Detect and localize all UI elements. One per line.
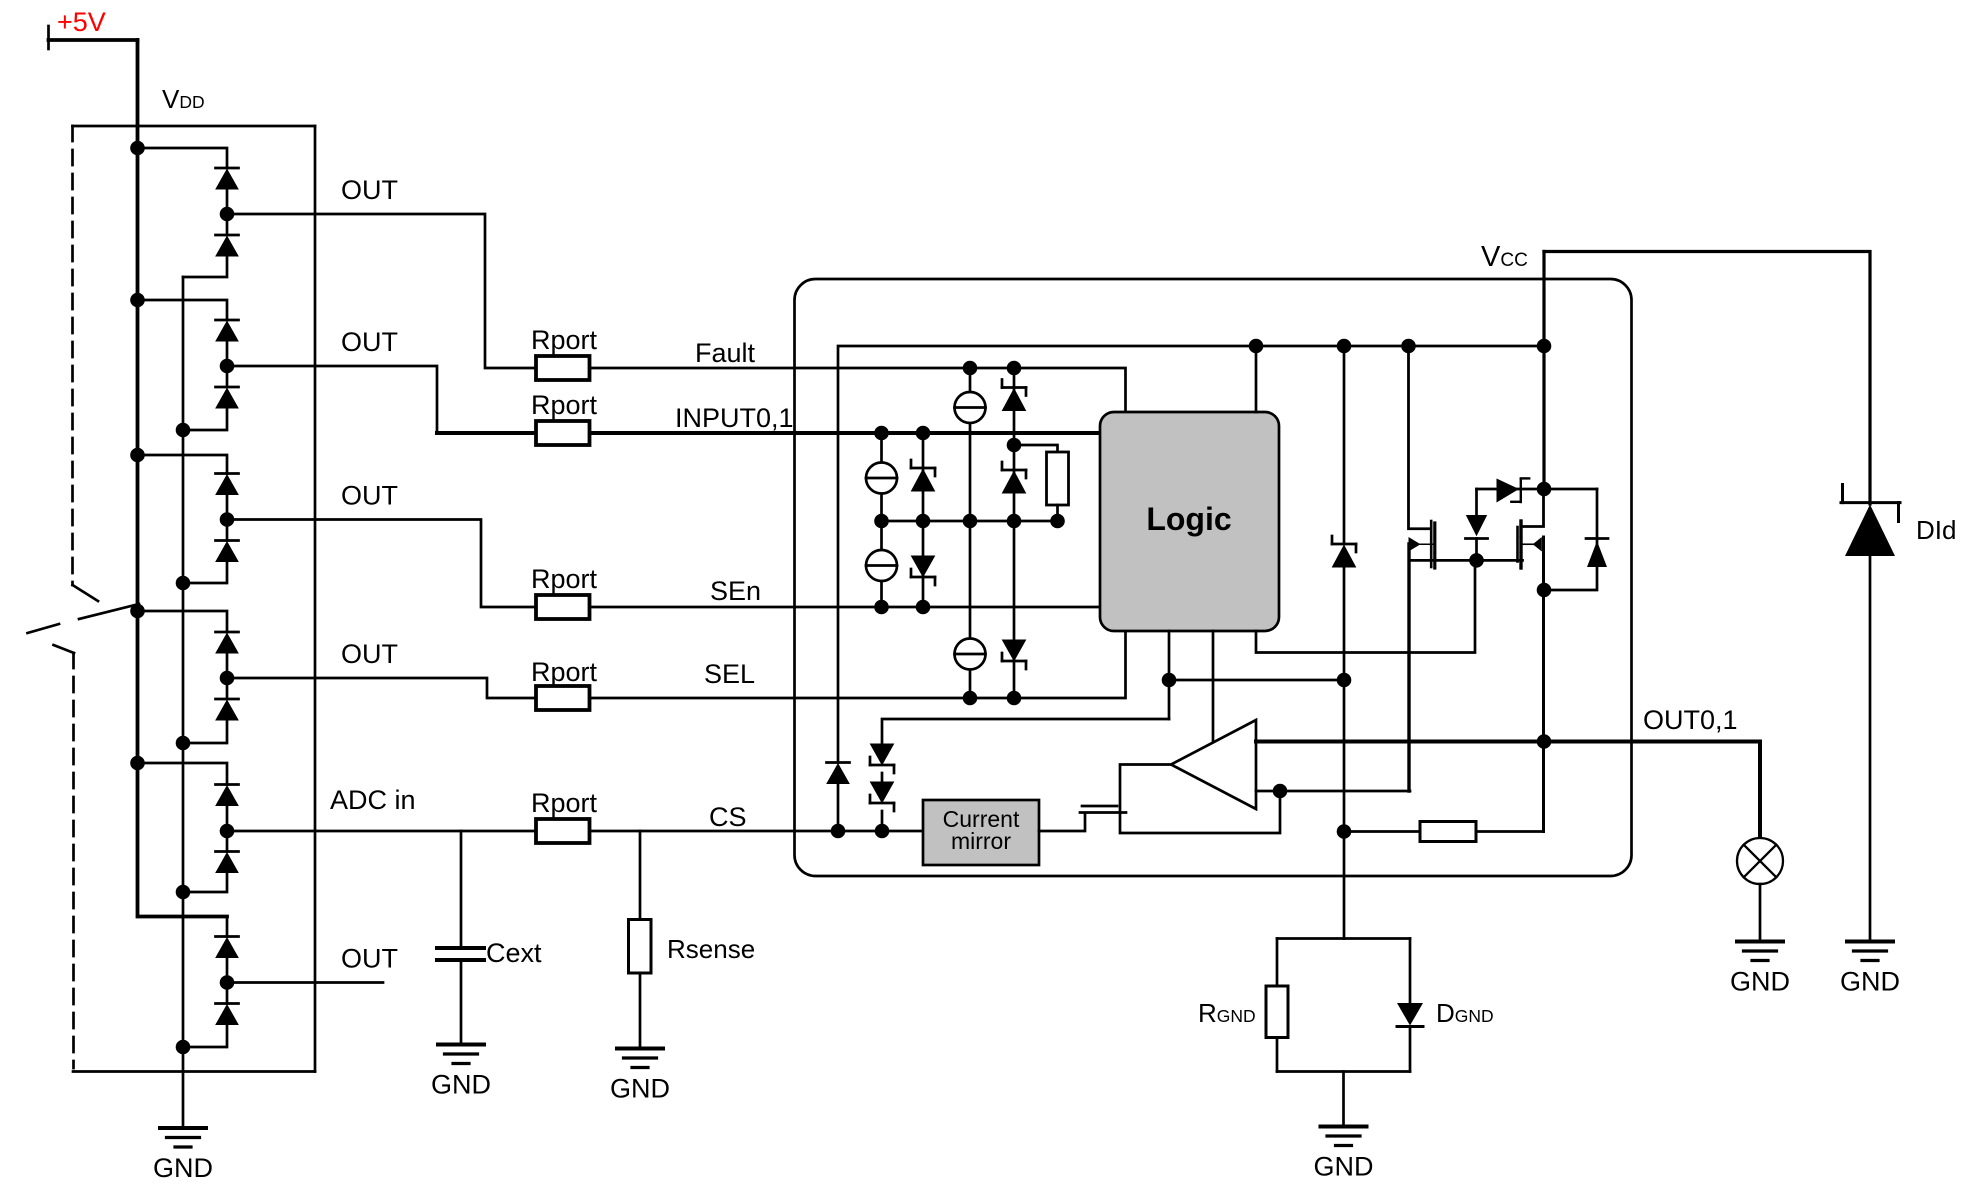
ESD diode cell2 upper: [216, 320, 239, 341]
capacitor Cext: [437, 946, 484, 950]
zener diode Z8 column lower: [1343, 566, 1346, 939]
wire OUT cell2 to Rport2: [227, 366, 437, 433]
node SEn-Z4 junction: [916, 600, 931, 615]
node midrail-I1: [963, 514, 978, 529]
wire ground network top: [1277, 937, 1410, 940]
node midrail-I2: [874, 514, 889, 529]
wire cell2 top: [138, 300, 228, 320]
wire SEL net: [590, 631, 1126, 698]
svg-text:ADC in: ADC in: [330, 785, 416, 815]
wire cell1 mid: [226, 190, 229, 235]
svg-text:OUT: OUT: [341, 481, 398, 511]
svg-text:Fault: Fault: [695, 338, 756, 368]
svg-text:OUT: OUT: [341, 327, 398, 357]
svg-text:Rsense: Rsense: [667, 934, 755, 964]
svg-text:Rport: Rport: [531, 390, 598, 420]
wire op-amp feedback bracket: [1120, 765, 1280, 834]
diode Da: [827, 763, 850, 784]
MCU box right edge: [314, 126, 317, 1072]
node Fault-Z1 junction: [1007, 361, 1022, 376]
ESD diode cell4 lower: [216, 699, 239, 720]
ESD diode cell6 lower: [216, 1004, 239, 1025]
node cell3 ground junction: [176, 576, 191, 591]
lamp load: [1737, 838, 1783, 884]
svg-text:DId: DId: [1916, 515, 1956, 545]
wire cell1 bottom: [183, 257, 227, 277]
wire gate rail H1: [1477, 488, 1598, 491]
transistor Qs gate bar: [1080, 811, 1126, 814]
node cell2 pin junction: [220, 359, 235, 374]
svg-text:INPUT0,1: INPUT0,1: [675, 403, 794, 433]
current source I3 stem: [880, 521, 883, 607]
node column junction 680: [1337, 673, 1352, 688]
wire cell6 top stub: [226, 917, 229, 937]
MCU box top edge: [73, 125, 316, 128]
svg-text:OUT0,1: OUT0,1: [1643, 705, 1738, 735]
wire mid rail: [882, 520, 1058, 523]
node OUT-Vcc junction: [1537, 734, 1552, 749]
zener diode Z8: [1332, 536, 1356, 567]
wire Logic pin B to comparator: [1212, 631, 1215, 744]
resistor Rport5: [536, 819, 590, 843]
wire CS clamp link: [882, 719, 1169, 744]
node bracket junction: [1273, 784, 1288, 799]
wire VDD bus: [138, 40, 228, 917]
wire internal Vcc rail: [838, 346, 1544, 763]
node SEL-I4 junction: [963, 691, 978, 706]
node rail-Z8 junction: [1337, 339, 1352, 354]
op-amp U1: [1171, 720, 1256, 809]
resistor Rport1: [536, 356, 590, 380]
wire OUT cell4 to Rport4: [227, 678, 536, 698]
node SEL-Z5 junction: [1007, 691, 1022, 706]
transistor M2 gate bar: [1516, 527, 1519, 562]
ground MCU: [153, 1128, 213, 1183]
current source I1 stem: [969, 368, 972, 521]
wire cell6 mid: [226, 959, 229, 1004]
current source I2 stem: [880, 433, 883, 521]
resistor Rfb: [1420, 822, 1476, 842]
node INPUT-Z3 junction: [916, 426, 931, 441]
svg-text:Rport: Rport: [531, 564, 598, 594]
ESD diode cell3 lower: [216, 541, 239, 562]
node H2 junction: [1469, 553, 1484, 568]
transistor M1 gate bar: [1430, 521, 1433, 567]
wire Logic Vcc pin: [1255, 346, 1258, 412]
node cell2 VDD junction: [130, 293, 145, 308]
node cell6 ground junction: [176, 1040, 191, 1055]
resistor Rsense: [629, 920, 652, 974]
svg-text:VDD: VDD: [162, 84, 205, 114]
wire cell3 mid: [226, 496, 229, 541]
diode Da stem: [837, 785, 840, 831]
wire OUT0,1 net: [1256, 742, 1760, 839]
+5V terminal tick: [47, 26, 50, 49]
ESD diode cell4 upper: [216, 632, 239, 653]
wire Vcc top feed: [1544, 252, 1870, 505]
ESD diode cell6 upper: [216, 937, 239, 958]
wire Vcc vertical upper: [1542, 252, 1545, 490]
zener diode Z3 stem: [922, 433, 925, 521]
node SEn-I3 junction: [874, 600, 889, 615]
wire RGND branch upper: [1276, 939, 1279, 985]
wire DGND branch lower: [1409, 1027, 1412, 1072]
wire ESD ground bus: [182, 277, 185, 1128]
node cell5 pin junction: [220, 824, 235, 839]
wire DId to ground: [1869, 556, 1872, 942]
node pinA junction: [1162, 673, 1177, 688]
wire Logic pin A down: [1168, 631, 1171, 719]
zener diode Z2: [1002, 462, 1026, 493]
MCU box left dashed edge upper: [71, 126, 74, 585]
resistor Rport2: [536, 421, 590, 445]
zener diode Z6-Z7 stem: [881, 773, 884, 782]
current source I2: [866, 463, 897, 494]
wire cell4 bottom: [183, 721, 227, 743]
wire cell2 bottom: [183, 409, 227, 430]
resistor Rport3: [536, 595, 590, 619]
resistor Rfb left wire: [1344, 830, 1420, 833]
zener diode Z5: [1002, 640, 1026, 669]
wire cell4 top: [138, 611, 228, 632]
diode Dg: [1466, 515, 1487, 536]
transistor M2 drain stub: [1521, 489, 1544, 527]
ESD diode cell5 lower: [216, 852, 239, 873]
wire DGND branch upper: [1409, 939, 1412, 1004]
node cell3 pin junction: [220, 512, 235, 527]
wire ground network bottom: [1277, 1070, 1410, 1073]
zener diode Z2 stem: [1013, 445, 1016, 521]
wire INPUT bus left segment: [437, 431, 536, 435]
svg-text:Cext: Cext: [486, 938, 542, 968]
current source I4 stem: [969, 521, 972, 698]
resistor Rfb right wire: [1476, 830, 1544, 833]
wire M1 gate feed: [1409, 346, 1431, 529]
wire cell1 top: [138, 148, 228, 168]
wire cell5 bottom: [183, 874, 227, 893]
node rail-Vcc junction: [1537, 339, 1552, 354]
wire Z1 to Rin hook: [1014, 445, 1058, 452]
svg-text:mirror: mirror: [951, 828, 1011, 854]
wire op-amp lower line: [1256, 790, 1410, 793]
current source I1: [955, 392, 986, 423]
node rail-Logic junction: [1249, 339, 1264, 354]
break mark slash B: [28, 624, 60, 633]
wire Fault net: [590, 368, 1126, 412]
node INPUT-I2 junction: [874, 426, 889, 441]
zener diode Z4: [911, 556, 935, 585]
capacitor Cext branch wire upper: [460, 831, 463, 946]
wire INPUT0,1 net: [590, 431, 1100, 435]
ground Cext: [431, 1045, 491, 1100]
node Db-Vcc junction: [1537, 583, 1552, 598]
zener diode Zcp: [1497, 479, 1520, 503]
node Rfb junction: [1337, 824, 1352, 839]
node cell4 pin junction: [220, 671, 235, 686]
wire cell2 mid: [226, 342, 229, 387]
zener diode Z1 stem: [1013, 368, 1016, 445]
ground lamp: [1730, 942, 1790, 997]
zener diode Z3: [911, 460, 935, 491]
node rail-M1gate junction: [1401, 339, 1416, 354]
node midrail-Z3: [916, 514, 931, 529]
wire M1 source drop: [1407, 544, 1410, 791]
node Fault-I1 junction: [963, 361, 978, 376]
node midrail-Z2: [1007, 514, 1022, 529]
node cell4 VDD junction: [130, 604, 145, 619]
node H1-Vcc junction: [1537, 482, 1552, 497]
ESD diode cell2 lower: [216, 387, 239, 408]
wire cell5 mid: [226, 807, 229, 852]
resistor Rport4: [536, 686, 590, 710]
zener diode Z7: [870, 782, 894, 811]
node cell1 pin junction: [220, 207, 235, 222]
svg-text:Rport: Rport: [531, 657, 598, 687]
wire Rin bottom stem: [1056, 505, 1059, 521]
ground DId: [1840, 942, 1900, 997]
wire GND stem: [1342, 1072, 1345, 1127]
node cell2 ground junction: [176, 423, 191, 438]
wire cell3 top: [138, 455, 228, 474]
node midrail-Rin: [1050, 514, 1065, 529]
zener diode Z1: [1002, 380, 1026, 411]
break mark kink lower: [54, 645, 75, 653]
svg-text:Rport: Rport: [531, 788, 598, 818]
svg-text:+5V: +5V: [57, 7, 106, 37]
MCU box left dashed edge lower: [72, 653, 75, 1068]
svg-text:RGND: RGND: [1198, 998, 1256, 1028]
svg-text:Rport: Rport: [531, 325, 598, 355]
wire cell3 bottom: [183, 563, 227, 584]
logic block Logic: [1100, 412, 1279, 631]
zener diode Z6: [870, 744, 894, 773]
resistor Rsense branch wire: [639, 831, 642, 920]
wire SEn net: [590, 606, 1100, 609]
current source I3: [866, 550, 897, 581]
wire ADC in cell5 to Rport5: [227, 830, 535, 833]
break mark kink upper: [73, 585, 99, 601]
transistor M1 channel: [1433, 523, 1436, 568]
zener diode DId: [1841, 501, 1900, 504]
svg-text:VCC: VCC: [1481, 241, 1528, 273]
IC boundary box: [795, 279, 1632, 876]
wire +5V feed: [49, 38, 138, 42]
svg-text:Logic: Logic: [1146, 501, 1231, 537]
wire Vcc vertical lower: [1542, 537, 1545, 832]
transistor M2 source arrow: [1523, 543, 1536, 545]
zener diode Z5 stem: [1013, 521, 1016, 698]
wire mirror to sense gate: [1039, 813, 1085, 831]
svg-text:OUT: OUT: [341, 639, 398, 669]
node cell3 VDD junction: [130, 448, 145, 463]
svg-text:SEL: SEL: [704, 659, 755, 689]
node cell5 ground junction: [176, 885, 191, 900]
wire OUT cell3 to Rport3: [227, 520, 535, 608]
node cell5 VDD junction: [130, 756, 145, 771]
zener diode Z4 stem: [922, 521, 925, 607]
wire Logic pin C to gate cluster: [1256, 562, 1475, 653]
wire lamp to ground: [1759, 884, 1762, 942]
wire source rail H2: [1409, 559, 1523, 562]
diode Db branch: [1544, 489, 1597, 590]
ESD diode cell1 lower: [216, 235, 239, 256]
diode Dg stem: [1475, 489, 1478, 515]
node cell4 ground junction: [176, 736, 191, 751]
svg-text:DGND: DGND: [1436, 998, 1494, 1028]
wire OUT cell1 to Rport1: [227, 214, 535, 368]
wire CS net: [590, 830, 923, 833]
zener diode Z8 column: [1343, 346, 1346, 544]
transistor M2 channel: [1519, 521, 1522, 568]
node cell1 VDD junction: [130, 141, 145, 156]
node CS-Da junction: [831, 824, 846, 839]
svg-text:SEn: SEn: [710, 576, 761, 606]
wire cell6 bottom: [183, 1026, 227, 1048]
ESD diode cell1 upper: [216, 168, 239, 189]
zener diode Z7 stem: [881, 811, 884, 831]
ESD diode cell5 upper: [216, 785, 239, 806]
node Z1 bottom junction: [1007, 438, 1022, 453]
wire cell4 mid: [226, 654, 229, 699]
diode Db: [1586, 537, 1608, 540]
resistor Rin: [1047, 452, 1069, 505]
wire pinA cross link: [1169, 679, 1344, 682]
diode DGND: [1397, 1003, 1423, 1026]
transistor Qs channel bar: [1082, 805, 1117, 808]
node cell6 pin junction: [220, 975, 235, 990]
block Current mirror: [923, 800, 1039, 865]
MCU box bottom edge: [73, 1070, 315, 1073]
resistor RGND: [1266, 986, 1288, 1038]
svg-text:OUT: OUT: [341, 175, 398, 205]
node CS-Z7 junction: [875, 824, 890, 839]
svg-text:CS: CS: [709, 802, 747, 832]
ESD diode cell3 upper: [216, 474, 239, 495]
wire Cext to ground: [460, 962, 463, 1044]
svg-text:OUT: OUT: [341, 944, 398, 974]
wire Rsense to ground: [639, 973, 642, 1048]
ground IC: [1314, 1127, 1374, 1182]
break mark slash A: [79, 604, 139, 619]
wire cell5 top: [138, 763, 228, 785]
transistor M1 source arrow: [1419, 543, 1434, 545]
wire RGND branch lower: [1276, 1039, 1279, 1072]
current source I4: [955, 639, 986, 670]
wire OUT cell6 stub: [227, 981, 383, 984]
ground Rsense: [610, 1049, 670, 1104]
diode Dg lower stem: [1475, 539, 1478, 561]
